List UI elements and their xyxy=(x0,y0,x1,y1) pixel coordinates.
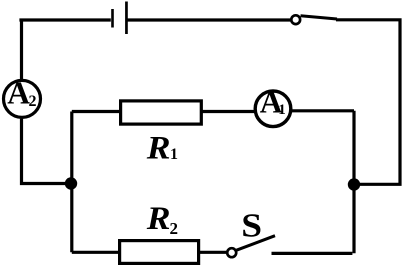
svg-text:1: 1 xyxy=(278,102,286,118)
svg-text:2: 2 xyxy=(29,93,37,110)
svg-text:S: S xyxy=(241,206,262,244)
svg-text:1: 1 xyxy=(170,146,178,163)
svg-text:R: R xyxy=(146,200,171,237)
svg-text:2: 2 xyxy=(170,219,179,238)
svg-text:R: R xyxy=(146,130,171,167)
svg-text:A: A xyxy=(7,76,30,111)
